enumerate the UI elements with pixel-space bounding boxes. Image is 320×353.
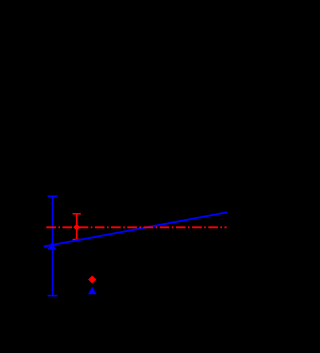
blue error bar vertical stem xyxy=(52,196,54,295)
red error bar vertical stem xyxy=(76,214,78,240)
blue error bar bottom cap xyxy=(48,295,58,297)
blue error bar top cap xyxy=(48,195,58,197)
blue triangle data marker xyxy=(47,242,56,250)
legend red diamond marker xyxy=(88,276,96,284)
red error bar top cap xyxy=(73,213,81,215)
red diamond data marker xyxy=(73,224,80,231)
blue trend line xyxy=(44,212,227,246)
red dash-dot horizontal line xyxy=(46,226,226,228)
legend blue triangle marker xyxy=(88,287,97,295)
red error bar bottom cap xyxy=(73,239,81,241)
